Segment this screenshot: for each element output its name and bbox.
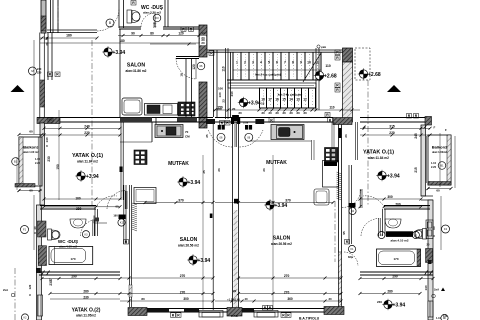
svg-text:245: 245: [414, 133, 418, 139]
svg-text:MUTFAK: MUTFAK: [168, 161, 189, 167]
staircase handrail: [228, 83, 316, 88]
svg-text:1.10: 1.10: [35, 157, 41, 161]
svg-text:C.Alt.: C.Alt.: [231, 314, 239, 318]
kitchen-B-left island sink: [155, 125, 183, 138]
wall wc-a bottom left: [119, 26, 141, 28]
balcony rail bottom hatch right: [428, 182, 451, 186]
svg-text:370: 370: [178, 198, 184, 202]
bottom wall dark seg left2: [184, 309, 199, 313]
wall wc-a right: [164, 0, 166, 27]
roof access circle: [317, 45, 320, 48]
wall hatch divider far-left: [37, 118, 60, 124]
dashed shaft top right: [355, 48, 370, 80]
svg-text:23: 23: [262, 168, 266, 172]
radiator R: [225, 121, 230, 126]
stair flight right edge: [315, 48, 317, 110]
svg-text:+3.94: +3.94: [393, 303, 406, 309]
svg-text:+1.20|1.40: +1.20|1.40: [227, 297, 240, 301]
svg-text:D: D: [415, 233, 417, 237]
svg-text:0.09: 0.09: [243, 121, 249, 125]
svg-text:çatı: çatı: [321, 45, 326, 49]
svg-text:18: 18: [261, 102, 265, 106]
svg-text:270: 270: [180, 290, 186, 294]
svg-text:230: 230: [83, 295, 89, 299]
svg-text:20: 20: [232, 107, 236, 111]
svg-text:F: F: [445, 128, 447, 132]
counter wall dark left: [120, 118, 152, 123]
radiator R: [345, 240, 350, 245]
party wall mid cap: [234, 199, 239, 204]
svg-text:110: 110: [329, 106, 334, 110]
radiator wc-a: [131, 1, 136, 6]
window balcony-left: [37, 137, 39, 185]
stair flight left edge: [225, 48, 227, 119]
svg-text:30: 30: [261, 111, 265, 115]
door mark right entry 06: [245, 133, 253, 141]
bath left inner wall: [94, 209, 96, 236]
svg-text:120: 120: [178, 32, 184, 36]
svg-text:MUTFAK: MUTFAK: [266, 160, 287, 166]
balcony balkon3 left: [19, 137, 42, 186]
svg-text:280: 280: [76, 207, 82, 211]
left outer wall salon-A edge2: [43, 33, 45, 118]
svg-text:20: 20: [233, 289, 237, 293]
wall hatch top-left: [41, 16, 46, 31]
balcony rail bottom hatch left: [15, 184, 35, 188]
divider dark seg right of door: [255, 119, 264, 124]
party wall center leaf: [234, 122, 236, 147]
door tag left entry: [218, 125, 221, 130]
radiator R: [335, 56, 340, 61]
svg-text:alan:1.00m2: alan:1.00m2: [432, 150, 447, 154]
svg-text:B.A.TIPIOLU: B.A.TIPIOLU: [299, 317, 320, 320]
wall right bath bottom y272: [360, 271, 433, 273]
left hall wall b: [129, 185, 131, 307]
dashed line right hall: [334, 201, 336, 262]
shaft hatch left bath: [38, 221, 47, 237]
radiator R: [181, 27, 186, 32]
svg-text:30: 30: [282, 111, 286, 115]
wall hatch divider right-center: [333, 118, 352, 125]
svg-text:40: 40: [244, 297, 248, 301]
svg-text:15: 15: [282, 98, 286, 102]
radiator R: [335, 83, 340, 88]
door arc right kitchen: [342, 189, 361, 208]
radiator R: [263, 306, 268, 311]
door tag right entry: [245, 125, 248, 130]
svg-text:alan:3.30 m2: alan:3.30 m2: [143, 11, 161, 15]
staircase lower flight: [259, 88, 316, 108]
svg-text:30: 30: [275, 111, 279, 115]
bath right inner wall: [382, 209, 384, 236]
svg-text:2.20: 2.20: [431, 165, 437, 169]
svg-text:3: 3: [252, 61, 254, 65]
svg-text:100: 100: [218, 86, 223, 90]
svg-text:alan:4.10 m2: alan:4.10 m2: [390, 238, 408, 242]
svg-text:370: 370: [285, 198, 291, 202]
svg-text:20: 20: [45, 42, 49, 46]
toilet left bath: [48, 229, 61, 240]
axis marker M left M: [29, 67, 37, 75]
dim box on hatch: [200, 35, 206, 45]
svg-text:K1: K1: [120, 221, 124, 225]
shaft hatch left bath2: [38, 246, 46, 266]
svg-text:1: 1: [236, 61, 238, 65]
svg-text:130: 130: [218, 92, 222, 97]
left dim chain lower: [33, 195, 35, 250]
elevation stair hall +3.94: [238, 97, 261, 108]
kitchen-B-right stove: [325, 148, 339, 163]
wall right bath top y205: [384, 205, 430, 207]
svg-text:95: 95: [342, 231, 346, 235]
stair right thick wall: [343, 62, 353, 122]
door arc right-unit hall: [363, 196, 384, 207]
svg-text:30: 30: [303, 111, 307, 115]
divider wall right y117: [360, 117, 425, 119]
radiator R: [325, 113, 330, 118]
door mark K3 top K3: [153, 14, 161, 22]
bathtub left: [49, 247, 93, 265]
stair direction line upper: [303, 53, 321, 82]
door mark K1 right K1: [348, 245, 355, 252]
radiator R: [220, 121, 225, 126]
dim line right of balcony: [454, 136, 456, 188]
radiator R: [281, 313, 286, 318]
svg-text:Balkon3: Balkon3: [23, 145, 39, 150]
balcony balkon3 right: [428, 135, 451, 185]
svg-text:B: B: [109, 21, 111, 25]
svg-text:180: 180: [66, 34, 72, 38]
door leaf right: [359, 189, 361, 208]
left hall wall a2: [123, 185, 125, 244]
kitchen-A stove: [178, 102, 195, 116]
svg-text:+2.68: +2.68: [324, 74, 337, 80]
svg-text:25: 25: [205, 134, 209, 138]
svg-text:160: 160: [75, 196, 81, 200]
bottom wall hatch left: [128, 308, 147, 316]
door arc left-unit entry: [209, 130, 233, 147]
svg-text:+3.94: +3.94: [113, 50, 126, 56]
svg-text:+3.94: +3.94: [387, 174, 400, 180]
counter wall dark left2: [177, 118, 197, 122]
radiator R: [269, 118, 274, 123]
svg-text:120: 120: [192, 64, 196, 70]
kitchen-B-right sink: [271, 125, 304, 140]
radiator R: [55, 72, 60, 77]
svg-text:70: 70: [185, 130, 189, 134]
svg-text:alan:11.84 m2: alan:11.84 m2: [77, 160, 98, 164]
svg-text:80: 80: [141, 297, 145, 301]
marker balcony left B1: [12, 158, 20, 166]
left outer wall lower: [37, 205, 42, 320]
svg-text:30: 30: [328, 297, 332, 301]
left outer wall mid: [40, 123, 45, 205]
svg-text:240: 240: [84, 124, 90, 128]
svg-text:20: 20: [201, 38, 205, 42]
svg-text:30: 30: [289, 111, 293, 115]
svg-text:23: 23: [344, 134, 348, 138]
bottom wall dark seg right: [242, 309, 254, 313]
radiator R: [335, 50, 340, 55]
svg-text:YATAK O.(1): YATAK O.(1): [363, 150, 394, 156]
window bay bottom left: [199, 311, 223, 318]
svg-text:240: 240: [37, 67, 42, 71]
right wall dark seg: [339, 128, 342, 138]
svg-text:+3.94: +3.94: [275, 203, 288, 209]
svg-text:280: 280: [387, 289, 393, 293]
door mark B B: [106, 19, 114, 27]
radiator R: [268, 306, 273, 311]
svg-text:60: 60: [29, 130, 33, 134]
wall lintel salon-A: [176, 56, 199, 58]
mark B on wall: [210, 214, 213, 219]
svg-text:SALON: SALON: [180, 237, 198, 243]
svg-text:30: 30: [268, 111, 272, 115]
svg-text:30: 30: [45, 37, 49, 41]
wall poche right lower: [339, 252, 342, 307]
elevation mutfak-right +3.94: [264, 199, 287, 210]
radiator R: [176, 313, 181, 318]
svg-text:5: 5: [268, 61, 270, 65]
svg-text:170: 170: [393, 257, 398, 261]
window right bottom: [428, 301, 433, 317]
svg-text:2xA: 2xA: [3, 288, 8, 292]
bottom wall hatch center: [227, 308, 242, 317]
svg-text:120: 120: [28, 284, 32, 289]
bottom wall hatch right: [324, 307, 344, 315]
svg-text:30: 30: [296, 111, 300, 115]
svg-text:90: 90: [115, 204, 119, 208]
svg-text:25: 25: [153, 25, 157, 29]
marker balcony right B1: [438, 162, 446, 170]
window bay bottom right: [254, 311, 278, 318]
svg-text:110: 110: [222, 66, 226, 71]
party wall center: [232, 115, 234, 310]
elevation yatak1-right +3.94: [376, 170, 400, 181]
wall left bath top y205: [40, 205, 96, 207]
door arc wc-a: [141, 13, 155, 27]
divider dark seg left of door: [206, 119, 215, 124]
radiator R: [209, 51, 214, 56]
svg-text:360: 360: [287, 297, 293, 301]
svg-text:14: 14: [289, 98, 293, 102]
door arc right-unit entry: [240, 130, 264, 147]
kitchen-B-left stove: [134, 150, 147, 165]
bathtub right: [377, 249, 421, 267]
svg-text:280: 280: [83, 289, 89, 293]
extension line right salon: [272, 155, 274, 310]
svg-text:300: 300: [183, 297, 189, 301]
balcony rail right: [447, 135, 451, 185]
svg-text:WC -DUŞ: WC -DUŞ: [58, 239, 78, 244]
wall wc-a left outer: [118, 0, 120, 28]
svg-text:170: 170: [70, 257, 75, 261]
svg-text:230: 230: [377, 300, 382, 304]
stairwell top wall: [207, 49, 343, 51]
door mark K3 right K3: [378, 231, 385, 238]
elevation yatak1-left +3.94: [75, 170, 99, 181]
right fridge: [314, 189, 329, 205]
wall hatch kitchen-left: [199, 82, 207, 128]
elevation stair upper +2.68: [358, 68, 381, 79]
svg-text:WC -DUŞ: WC -DUŞ: [390, 232, 409, 237]
radiator R: [124, 240, 129, 245]
party wall top cap: [233, 115, 239, 121]
door mark left entry 06: [217, 133, 225, 141]
left hall cupboard: [134, 188, 156, 204]
radiator R: [407, 114, 412, 119]
svg-text:270: 270: [284, 274, 290, 278]
right hall wall a: [348, 165, 350, 244]
cabinet dark label: [324, 162, 337, 167]
svg-text:K3: K3: [155, 16, 159, 20]
balcony rail left: [19, 137, 23, 186]
party wall poche: [234, 210, 238, 307]
door mark left K1 K1: [118, 219, 125, 226]
wall poche left lower: [129, 285, 132, 297]
elevation mutfak-left +3.94: [177, 176, 200, 187]
svg-text:220: 220: [84, 131, 90, 135]
svg-text:2xA: 2xA: [434, 288, 439, 292]
radiator R: [335, 88, 340, 93]
stair mid line upper: [233, 69, 321, 71]
tick: [42, 271, 45, 276]
svg-text:150: 150: [56, 164, 60, 170]
svg-text:2: 2: [244, 61, 246, 65]
svg-text:18: 18: [180, 73, 184, 77]
wall top y27 to hatch: [163, 26, 199, 28]
window left bottom: [38, 295, 43, 316]
duct wall right: [355, 122, 357, 160]
left outer wall salon-A edge1: [39, 33, 41, 118]
svg-text:+3.94: +3.94: [188, 180, 201, 186]
svg-text:alan:31.86 m2: alan:31.86 m2: [126, 69, 147, 73]
right outer wall mid: [421, 125, 426, 196]
svg-text:16: 16: [275, 98, 279, 102]
svg-text:F: F: [434, 126, 436, 130]
svg-text:200: 200: [395, 203, 401, 207]
door arc balcony top-left: [97, 9, 119, 31]
svg-text:alan:11.84 m2: alan:11.84 m2: [368, 156, 389, 160]
wall hatch stair-right: [343, 48, 353, 62]
elevation stair mid +2.68: [314, 70, 337, 81]
marker F1 F1: [21, 226, 29, 234]
svg-text:+3.94: +3.94: [198, 258, 211, 264]
door leaf wc-left: [92, 220, 94, 237]
svg-text:6: 6: [276, 61, 278, 65]
door tag block right: [349, 203, 356, 208]
svg-text:7: 7: [284, 61, 286, 65]
elevation bottom-right +3.94: [382, 299, 405, 310]
marker bottom-left K2: [21, 314, 28, 320]
svg-text:190: 190: [113, 214, 118, 218]
elevation salon-A +3.94: [102, 46, 125, 57]
svg-text:270: 270: [284, 290, 290, 294]
radiator R: [48, 72, 53, 77]
svg-text:100: 100: [216, 107, 221, 111]
radiator R: [286, 313, 291, 318]
door tag block left: [119, 215, 126, 220]
svg-text:9: 9: [300, 61, 302, 65]
sink right bath: [385, 219, 401, 228]
wall left outer top: [41, 0, 46, 33]
staircase upper flight: [227, 52, 321, 80]
door mark 06 06: [197, 62, 205, 70]
svg-text:120: 120: [443, 314, 448, 318]
toilet right bath: [414, 229, 427, 240]
svg-text:1.10: 1.10: [431, 161, 437, 165]
svg-text:90: 90: [131, 32, 135, 36]
door arc salon-A: [176, 58, 196, 79]
svg-text:60: 60: [432, 226, 436, 230]
shower corner left: [94, 216, 107, 224]
extension line left salon: [202, 155, 204, 310]
wall hatch divider far-right: [425, 117, 432, 126]
radiator R: [328, 118, 333, 123]
svg-text:SALON: SALON: [273, 236, 291, 242]
svg-text:220: 220: [37, 71, 42, 75]
svg-text:220: 220: [389, 131, 395, 135]
left unit right wall lower: [212, 122, 214, 310]
svg-text:13: 13: [296, 98, 300, 102]
svg-text:+3.94: +3.94: [248, 101, 261, 107]
svg-text:25: 25: [202, 170, 206, 174]
radiator R: [171, 313, 176, 318]
svg-text:30: 30: [238, 111, 242, 115]
left dim chain upper: [33, 40, 35, 134]
room label wc-right highlighted: [386, 231, 413, 237]
svg-text:2.20: 2.20: [35, 161, 41, 165]
svg-text:4: 4: [260, 61, 262, 65]
svg-text:alan:26.56 m2: alan:26.56 m2: [178, 244, 199, 248]
wall hatch stair-left upper: [199, 25, 207, 57]
door arc left-unit hall: [96, 196, 117, 207]
svg-text:140: 140: [424, 285, 428, 290]
kitchen-A fridge: [122, 98, 142, 115]
shaft hatch right bath: [426, 249, 433, 263]
dark block wall junction right: [428, 260, 432, 264]
left wall hatch mid: [40, 80, 45, 107]
svg-text:10: 10: [307, 61, 311, 65]
marker K3 left-bath K3: [82, 231, 89, 238]
triangle right: [387, 85, 401, 92]
svg-text:215: 215: [414, 167, 418, 173]
door leaf wc-right: [378, 218, 380, 236]
wall salon-A top outer: [47, 29, 97, 31]
party wall caps dark: [231, 118, 234, 125]
door mark 04 04: [349, 207, 356, 214]
right unit wall: [338, 122, 340, 310]
toilet wc-a: [127, 10, 140, 23]
centerline left: [91, 40, 93, 205]
svg-text:CM: CM: [185, 135, 190, 139]
svg-text:60: 60: [29, 189, 33, 193]
triangle left: [11, 85, 25, 92]
right dim chain lower: [440, 196, 442, 250]
svg-text:17: 17: [268, 98, 272, 102]
tick: [47, 271, 50, 276]
svg-text:82|a: 82|a: [348, 255, 354, 259]
door arc wc-right: [361, 218, 379, 236]
tick: [430, 271, 433, 276]
left hall wall a: [120, 122, 122, 200]
svg-text:60: 60: [436, 189, 440, 193]
svg-text:23: 23: [222, 99, 226, 103]
marker F2 F2: [442, 225, 450, 233]
svg-text:YATAK O.(1): YATAK O.(1): [72, 153, 103, 159]
radiator R: [414, 114, 419, 119]
centerline right: [367, 80, 369, 205]
